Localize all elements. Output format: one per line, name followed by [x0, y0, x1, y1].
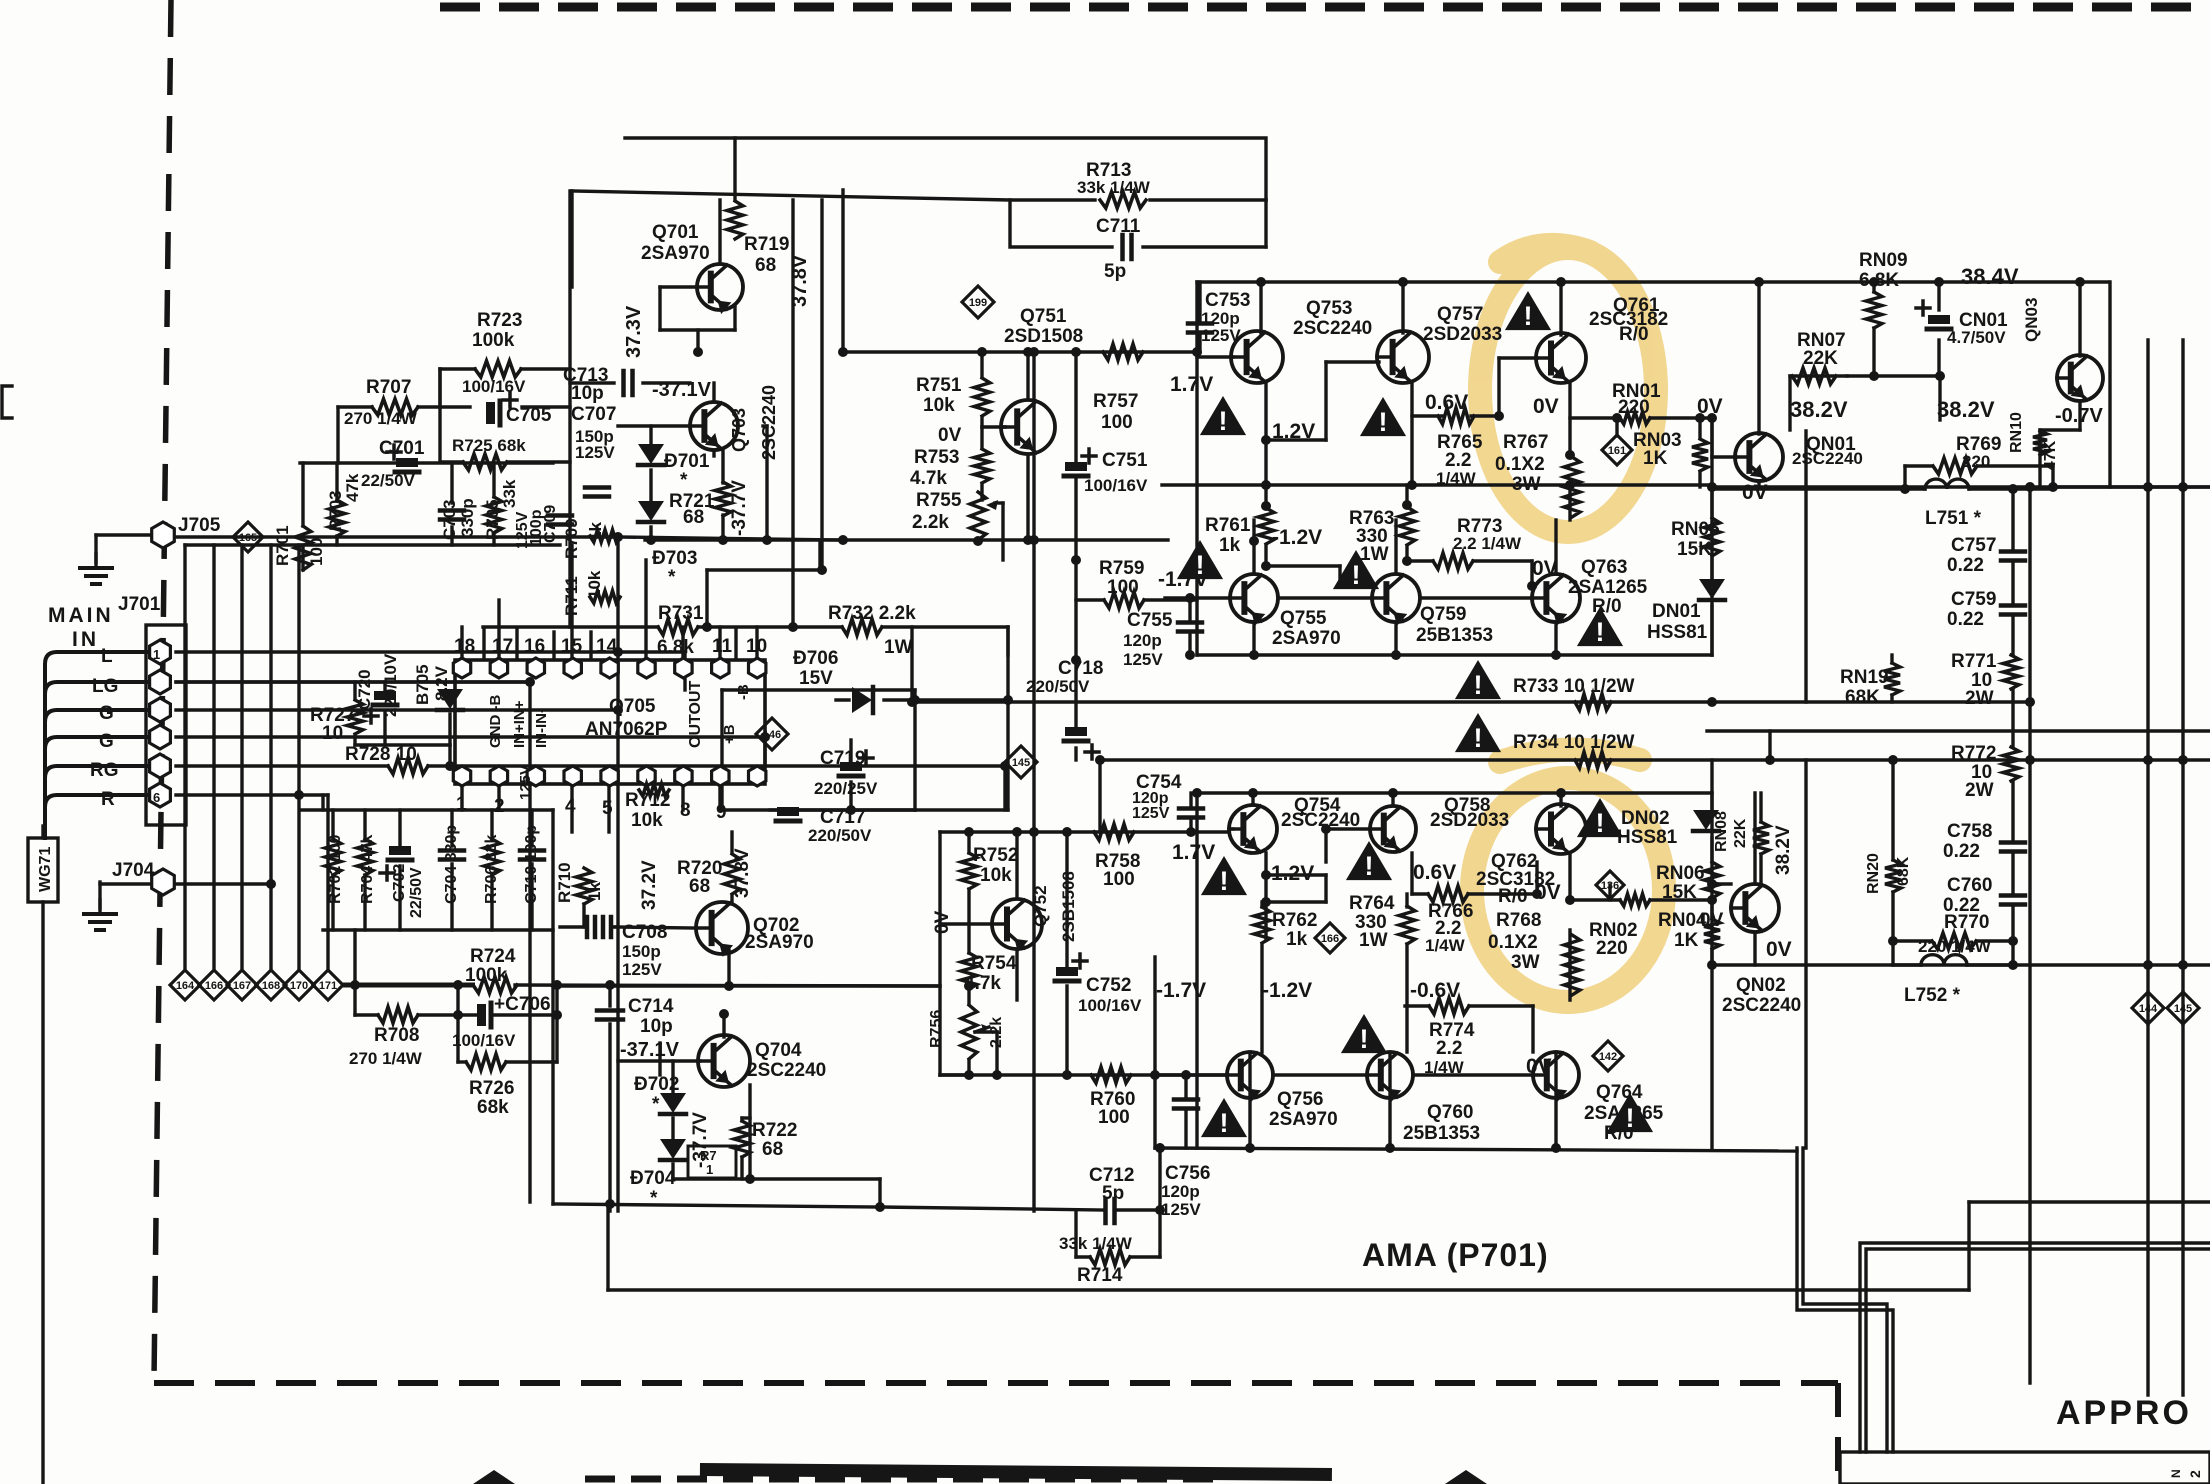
- wire R726 column: [0, 0, 1, 1]
- svg-text:R707: R707: [366, 377, 411, 398]
- svg-text:R725 68k: R725 68k: [452, 436, 526, 455]
- wire Q761 collector: [1559, 282, 1562, 335]
- diode D702: [634, 1074, 686, 1115]
- svg-text:100k: 100k: [465, 965, 508, 986]
- resistor R762 1k: [1254, 907, 1317, 950]
- svg-text:38.2V: 38.2V: [1790, 397, 1848, 422]
- wire diamond 136 stub: [1608, 885, 1611, 900]
- transistor Q704 2SC2240: [698, 1035, 826, 1087]
- wire Q702 area: [615, 927, 729, 986]
- wire RN01 run: [1570, 418, 1712, 487]
- capacitor C760 0.22: [1943, 875, 2025, 916]
- page border dashed bottom horizontal: [154, 1380, 1838, 1386]
- node voltage -1.2V upper: [1272, 526, 1322, 549]
- diamond 146: [756, 718, 788, 750]
- wire Q762 collector: [1559, 793, 1562, 806]
- wire Q753 collector: [1259, 282, 1262, 333]
- warning triangle bottom mid partial: [1445, 1470, 1487, 1484]
- svg-text:C714: C714: [628, 996, 674, 1017]
- wire Q754 collector: [1251, 793, 1254, 805]
- svg-text:68K: 68K: [1895, 856, 1912, 886]
- svg-text:R751: R751: [916, 375, 962, 396]
- wire x2110 vertical: [2108, 282, 2111, 487]
- svg-text:144: 144: [2139, 1003, 2158, 1015]
- svg-text:5: 5: [602, 798, 613, 819]
- resistor R727 10: [310, 700, 363, 744]
- svg-text:*: *: [652, 1094, 660, 1115]
- svg-text:R712: R712: [625, 790, 670, 811]
- svg-text:100/16V: 100/16V: [452, 1031, 516, 1050]
- svg-text:R710: R710: [555, 862, 574, 903]
- wire R773 run: [1407, 561, 1532, 586]
- svg-text:11: 11: [712, 636, 733, 657]
- diode D701: [638, 444, 710, 491]
- wire y810 run: [770, 808, 1008, 811]
- svg-text:33k 1/4W: 33k 1/4W: [1059, 1234, 1133, 1253]
- node voltage 0.6V upper: [1425, 391, 1468, 414]
- svg-text:10p: 10p: [571, 383, 604, 404]
- warning triangle upper 2: [1360, 397, 1406, 437]
- wire C756 drop: [1184, 1075, 1187, 1148]
- capacitor CN01 4.7/50V: [1916, 301, 2008, 347]
- wire RN03 drop: [1617, 418, 1700, 487]
- resistor RN08 22K: [1713, 811, 1769, 854]
- transistor Q758 2SD2033: [1370, 795, 1509, 852]
- transistor Q757 2SD2033: [1377, 304, 1502, 383]
- svg-text:C759: C759: [1951, 589, 1996, 610]
- svg-text:R709: R709: [562, 518, 581, 559]
- wire R707 run: [338, 407, 570, 463]
- resistor R720 68: [677, 854, 740, 897]
- wire y986 lower rail: [553, 984, 940, 987]
- svg-text:R771: R771: [1951, 651, 1997, 672]
- svg-text:!: !: [1352, 560, 1361, 590]
- wire y352 run: [843, 350, 1197, 353]
- svg-text:-B: -B: [735, 684, 752, 700]
- capacitor C719 220/25V: [814, 748, 878, 798]
- wire Q754-Q758 step: [1266, 875, 1326, 902]
- wire x2148 long vertical: [2146, 340, 2149, 1395]
- warning triangle upper 1: [1200, 396, 1246, 436]
- svg-text:Q759: Q759: [1420, 604, 1466, 625]
- wire y540 mid run: [645, 538, 1168, 541]
- diamond 199: [962, 286, 994, 318]
- svg-text:10k: 10k: [585, 570, 604, 599]
- svg-text:LG: LG: [92, 676, 118, 697]
- svg-text:220/50V: 220/50V: [808, 826, 872, 845]
- warning triangle c756: [1201, 1098, 1247, 1138]
- svg-text:!: !: [1524, 301, 1533, 331]
- svg-text:R753: R753: [914, 447, 959, 468]
- transistor Q764 2SA1265: [1533, 1052, 1664, 1144]
- svg-text:2SA970: 2SA970: [745, 932, 814, 953]
- svg-text:125V: 125V: [575, 443, 615, 462]
- svg-text:Q701: Q701: [652, 222, 699, 243]
- svg-text:38.4V: 38.4V: [1961, 264, 2019, 289]
- wire y965 lower output rail: [1712, 963, 2210, 966]
- svg-text:15K: 15K: [1662, 882, 1697, 903]
- node voltage 38.2V r769: [1937, 397, 1995, 422]
- svg-text:!: !: [1626, 1103, 1635, 1133]
- svg-text:RN10: RN10: [2008, 412, 2025, 453]
- svg-text:Q764: Q764: [1596, 1082, 1643, 1103]
- svg-text:2.2: 2.2: [1436, 1038, 1462, 1059]
- wire x1008 vertical: [1006, 627, 1009, 810]
- wire Q764 emitter: [1554, 1052, 1557, 1148]
- capacitor C709 100p 125V: [514, 505, 572, 549]
- wire R757 run on y352: [980, 350, 983, 353]
- svg-text:Q757: Q757: [1437, 304, 1483, 325]
- resistor R774 2.2 1/4W: [1424, 998, 1475, 1077]
- wire lower Q754 row: [1229, 827, 1233, 830]
- svg-text:R757: R757: [1093, 391, 1138, 412]
- transistor Q755 2SA970: [1230, 574, 1341, 649]
- svg-text:APPRO: APPRO: [2056, 1394, 2192, 1432]
- svg-text:C707: C707: [571, 404, 616, 425]
- svg-text:22K: 22K: [1803, 348, 1838, 369]
- svg-text:2SB1508: 2SB1508: [1059, 871, 1078, 942]
- diode D706 15V: [793, 648, 873, 713]
- connector J704: [112, 860, 174, 895]
- wire Q763 emitter: [1554, 622, 1557, 655]
- resistor R763 330 1W: [1349, 507, 1415, 565]
- diamond row 164: [170, 970, 200, 1000]
- node voltage 38.2V qn02: [1773, 825, 1794, 875]
- wire Q757-Q761 link: [1412, 358, 1537, 416]
- wire R723 run: [440, 369, 570, 407]
- svg-text:0V: 0V: [1697, 395, 1723, 418]
- capacitor C756b 120p 125V: [0, 0, 1, 1]
- resistor R768 0.1X2 3W: [1488, 910, 1580, 995]
- inductor L751: [1925, 479, 1982, 529]
- warning triangle lower 2: [1346, 841, 1392, 881]
- capacitor C751 100/16V: [1064, 449, 1148, 495]
- diamond row 166: [199, 970, 229, 1000]
- ground at J704: [84, 900, 116, 930]
- wire x1197 lower column: [1195, 793, 1198, 1148]
- wire lower -0.6V run: [1405, 1006, 1533, 1052]
- resistor R752 10k: [961, 845, 1018, 889]
- wire Q756-Q760 link: [1273, 1073, 1367, 1076]
- svg-text:MAIN: MAIN: [48, 604, 114, 627]
- wire D706 block: [722, 690, 1008, 810]
- resistor R751 10k: [916, 375, 990, 416]
- svg-text:1: 1: [153, 647, 160, 662]
- connector WG71: [28, 838, 58, 902]
- resistor R719 68: [727, 201, 789, 276]
- capacitor C701 22/50V: [361, 438, 425, 490]
- wire Q704 area: [618, 1014, 880, 1204]
- node voltage -1.2V lower: [1262, 979, 1312, 1002]
- wire CN01 column: [1937, 282, 1940, 376]
- diamond row 167: [227, 970, 257, 1000]
- capacitor C756 120p 125V: [1161, 1100, 1210, 1220]
- wire C754 drop: [1189, 793, 1192, 832]
- resistor R759 100: [1099, 558, 1144, 608]
- wire D704 bottom box: [553, 986, 1969, 1290]
- resistor R706 33k: [483, 835, 500, 904]
- svg-text:68: 68: [683, 507, 704, 528]
- wire left J705 run: [96, 535, 843, 540]
- svg-text:!: !: [1196, 550, 1205, 580]
- node voltage -0.6V lower: [1410, 979, 1460, 1002]
- wire y598 upper links: [1278, 596, 1532, 599]
- resistor R710 1k: [555, 862, 604, 904]
- warning triangle Q761: [1505, 291, 1551, 331]
- wire RN09 column: [1847, 282, 1874, 376]
- svg-text:RN20: RN20: [1865, 853, 1882, 894]
- capacitor C710 100p: [520, 825, 544, 904]
- svg-text:QN02: QN02: [1736, 975, 1786, 996]
- warning triangle r759: [1177, 540, 1223, 580]
- capacitor C711 5p: [1096, 216, 1141, 282]
- wire x912 drop: [910, 627, 913, 702]
- wire RN05 column: [1710, 487, 1713, 655]
- svg-text:1/4W: 1/4W: [1425, 936, 1466, 955]
- svg-text:2SA970: 2SA970: [641, 243, 710, 264]
- svg-text:Ð702: Ð702: [634, 1074, 679, 1095]
- wire QN01 collector up: [1757, 282, 1760, 434]
- svg-text:100/16V: 100/16V: [462, 377, 526, 396]
- svg-text:C755: C755: [1127, 610, 1173, 631]
- svg-text:25B1353: 25B1353: [1403, 1123, 1480, 1144]
- diamond 166b: [1315, 923, 1345, 953]
- capacitor C714 10p: [597, 996, 674, 1037]
- resistor R711 10k: [562, 570, 620, 616]
- wire C712 run: [880, 1148, 2210, 1210]
- svg-text:8: 8: [680, 800, 691, 821]
- svg-text:146: 146: [763, 729, 781, 741]
- wire R725 run: [440, 369, 570, 462]
- svg-text:!: !: [1596, 808, 1605, 838]
- capacitor C758 0.22: [1943, 821, 2025, 862]
- node voltage 0V q752: [932, 910, 953, 934]
- wire y485 upper emitter rail: [1162, 483, 1712, 486]
- wire R762 column: [1260, 902, 1263, 1052]
- svg-text:37.3V: 37.3V: [623, 305, 645, 358]
- svg-text:220/25V: 220/25V: [814, 779, 878, 798]
- IC pin numbers top: [454, 630, 767, 658]
- wire x1712 upper right column: [1710, 487, 1713, 655]
- resistor R758 100: [1094, 824, 1140, 890]
- wire R761 column: [1266, 485, 1340, 586]
- wire lower right rails: [1710, 963, 1713, 966]
- svg-text:68: 68: [755, 255, 776, 276]
- wire R758 on y832: [1092, 830, 1095, 833]
- svg-text:C758: C758: [1947, 821, 1992, 842]
- node voltage -0.7V: [2055, 405, 2103, 427]
- diode D703: [638, 501, 697, 588]
- svg-text:R708: R708: [374, 1025, 419, 1046]
- resistor R771 10 2W: [1951, 651, 2019, 709]
- svg-text:2SC2240: 2SC2240: [759, 385, 779, 460]
- resistor R709 1k: [562, 518, 620, 559]
- resistor R753 4.7k: [910, 447, 990, 489]
- svg-text:2SD2033: 2SD2033: [1430, 810, 1509, 831]
- svg-text:10k: 10k: [980, 865, 1012, 886]
- node voltage 1.7V upper: [1170, 373, 1213, 396]
- pin label LG: [92, 676, 118, 697]
- wire R756 wiper: [975, 1032, 997, 1075]
- wire J704 ground stub: [98, 882, 101, 908]
- capacitor C717 220/50V: [776, 807, 872, 845]
- svg-text:RN06: RN06: [1656, 863, 1705, 884]
- svg-text:165: 165: [239, 532, 257, 544]
- node voltage 0V r774: [1526, 1055, 1552, 1078]
- svg-text:68: 68: [689, 876, 710, 897]
- node voltage 1.7V lower: [1172, 841, 1215, 864]
- transistor Q753 2SC2240: [1231, 298, 1372, 383]
- svg-text:1k: 1k: [1219, 535, 1241, 556]
- svg-text:R752: R752: [973, 845, 1018, 866]
- resistor R722 68: [734, 1120, 797, 1160]
- resistor R714 33k 1/4W: [1059, 1234, 1133, 1286]
- svg-text:1.2V: 1.2V: [1272, 420, 1315, 443]
- capacitor C706 100/16V: [452, 994, 551, 1050]
- wire Q757 collector: [1401, 282, 1404, 333]
- node voltage -1.7V lower: [1156, 979, 1206, 1002]
- svg-text:-1.2V: -1.2V: [1262, 979, 1312, 1002]
- wire y1148 lower block bottom rail: [1155, 1148, 1797, 1151]
- svg-text:1.7V: 1.7V: [1170, 373, 1213, 396]
- wire y731 right link: [1707, 729, 2210, 732]
- diamond 145: [2167, 992, 2199, 1024]
- wire x2183 long vertical: [2181, 340, 2184, 1395]
- svg-text:6.8k: 6.8k: [657, 637, 694, 658]
- potentiometer R755 2.2k: [912, 490, 998, 540]
- resistor R704 47k: [357, 835, 376, 904]
- svg-text:N: N: [2169, 1469, 2183, 1478]
- svg-text:2W: 2W: [1965, 780, 1994, 801]
- node voltage 0V q762: [1535, 881, 1561, 904]
- resistor R703 47k: [326, 473, 362, 536]
- svg-text:1W: 1W: [1359, 930, 1388, 951]
- connector J701: [118, 594, 186, 825]
- svg-text:2.2 1/4W: 2.2 1/4W: [1453, 534, 1522, 553]
- svg-text:R701: R701: [273, 525, 292, 566]
- wire Q761 emitter: [1568, 384, 1571, 455]
- svg-text:DN01: DN01: [1652, 601, 1701, 622]
- connector pins bottom right: [2169, 1469, 2203, 1478]
- svg-text:R723: R723: [477, 310, 522, 331]
- svg-text:-37.1V: -37.1V: [620, 1039, 680, 1061]
- highlighter mark around Q762 and R734: [1472, 749, 1664, 1002]
- svg-text:136: 136: [1601, 880, 1619, 892]
- node voltage -1.7V upper: [1158, 568, 1208, 591]
- svg-text:16: 16: [524, 636, 545, 657]
- wire C719 stub: [849, 740, 852, 810]
- wire Q759 emitter: [1394, 622, 1397, 655]
- svg-text:100/16V: 100/16V: [1084, 476, 1148, 495]
- wire C708 run: [560, 904, 615, 927]
- capacitor C755 120p 125V: [1123, 610, 1202, 669]
- resistor R713 33k 1/4W: [1077, 160, 1151, 208]
- svg-text:3W: 3W: [1511, 952, 1540, 973]
- svg-text:R770: R770: [1944, 912, 1989, 933]
- wire R759 run: [1076, 598, 1197, 601]
- svg-text:G: G: [99, 703, 114, 724]
- wire IC top pins up: [462, 545, 757, 660]
- svg-text:10: 10: [746, 636, 767, 657]
- svg-text:5p: 5p: [1104, 261, 1126, 282]
- wire columns verticals: [303, 463, 494, 570]
- svg-text:L: L: [101, 646, 113, 667]
- svg-text:100: 100: [1107, 577, 1139, 598]
- svg-text:G: G: [99, 731, 114, 752]
- svg-text:164: 164: [176, 980, 195, 992]
- capacitor C708 150p 125V: [587, 917, 667, 979]
- node voltage 37.2V: [639, 860, 660, 910]
- resistor R708 270 1/4W: [349, 1007, 423, 1068]
- cut symbol at left margin: [2, 386, 12, 418]
- wire WG71 drop: [41, 826, 44, 1484]
- resistor R764 330 1W: [1349, 893, 1415, 951]
- svg-text:0.22: 0.22: [1947, 609, 1984, 630]
- wire y488 output rail right: [1712, 485, 2210, 488]
- wire y288 top rail: [1197, 280, 2108, 283]
- svg-text:1.2V: 1.2V: [1271, 862, 1314, 885]
- wire DN02 column: [1710, 793, 1713, 965]
- svg-text:1K: 1K: [1674, 930, 1699, 951]
- node voltage 38.2V rot: [0, 0, 1, 1]
- node voltage 37.8V: [789, 254, 811, 307]
- svg-text:R731: R731: [658, 603, 704, 624]
- wire Q758 collector: [1391, 793, 1394, 805]
- node voltage 0V q761: [1533, 395, 1559, 418]
- svg-text:B705: B705: [413, 664, 432, 705]
- svg-text:1k: 1k: [585, 882, 604, 901]
- svg-text:IN-IN-: IN-IN-: [533, 708, 550, 748]
- ground at J705: [80, 554, 112, 584]
- transistor QN01 2SC2240: [1735, 397, 1863, 504]
- svg-text:!: !: [1365, 851, 1374, 881]
- node voltage 38.4V: [1961, 264, 2019, 289]
- svg-text:5p: 5p: [1102, 1183, 1124, 1204]
- resistor RN10 47K: [2008, 412, 2059, 470]
- pin label L: [101, 646, 113, 667]
- pin label G 2: [99, 731, 114, 752]
- svg-text:Q752: Q752: [1031, 885, 1050, 927]
- resistor RN07 22K: [1792, 330, 1846, 384]
- svg-text:R/0: R/0: [1619, 324, 1649, 345]
- wire R755 wiper: [995, 503, 1003, 560]
- svg-text:8.2V: 8.2V: [432, 665, 451, 701]
- wire x940 left column: [938, 832, 941, 1075]
- svg-text:1/4W: 1/4W: [1424, 1058, 1465, 1077]
- diode DN02 HSS81: [1617, 808, 1719, 848]
- svg-text:1: 1: [456, 794, 467, 815]
- svg-text:220: 220: [1596, 938, 1628, 959]
- svg-text:0.1X2: 0.1X2: [1495, 454, 1545, 475]
- svg-text:10k: 10k: [923, 395, 955, 416]
- wire QN03 chain: [2040, 282, 2080, 487]
- wire Q758 emitter: [1410, 853, 1413, 894]
- svg-text:!: !: [1220, 1108, 1229, 1138]
- bottom edge dashed line: [585, 1476, 1225, 1483]
- IC Q705 AN7062P: [453, 658, 766, 786]
- resistor R724 100k: [465, 946, 517, 993]
- svg-text:10: 10: [322, 723, 343, 744]
- svg-text:22/50V: 22/50V: [361, 471, 416, 490]
- svg-text:C720: C720: [355, 669, 374, 710]
- wire IC bottom pins down: [462, 784, 720, 832]
- resistor R701 100: [273, 525, 326, 570]
- resistor R769 220: [1933, 434, 2001, 474]
- wire y1075 lower drive run: [940, 1073, 1227, 1076]
- svg-text:!: !: [1474, 723, 1483, 753]
- wire diamonds 144 145 stubs: [2148, 992, 2183, 1024]
- svg-text:4.7k: 4.7k: [910, 468, 947, 489]
